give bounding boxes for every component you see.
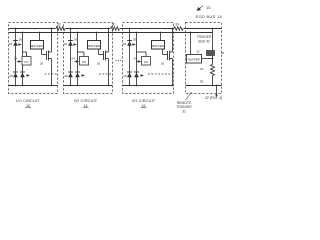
svg-text:18: 18 [64,42,68,46]
svg-text:18: 18 [9,42,13,46]
svg-text:20: 20 [133,38,137,42]
svg-text:16: 16 [142,104,146,108]
svg-text:I/O: I/O [82,60,87,64]
svg-text:28: 28 [9,74,13,78]
ground bus wire segment (box 2) [64,85,113,87]
svg-text:18: 18 [123,42,127,46]
svg-text:BUFFER: BUFFER [152,44,164,48]
I/O circuit block 3 dashed outline [123,23,174,94]
leader arrow 24 to pad (box 1) [14,57,22,63]
label I/O CIRCUIT 2 [74,98,98,108]
ground bus wire segment (remote trigger) [186,85,222,87]
wire: resistor to ground bus [212,76,214,86]
svg-text:26: 26 [97,62,101,66]
wire: second vertical (box 2) [77,33,79,86]
diode D3b (lower, rail to ground) [127,71,132,73]
label TRIGGER BUS 43 [197,35,212,44]
buffer U3 box [152,41,165,50]
svg-text:TRIGGER: TRIGGER [176,105,192,109]
label I/O CIRCUIT 1 [16,98,40,108]
buffer U1 box [31,41,44,50]
svg-text:BUFFER: BUFFER [188,58,200,62]
leader arrow lower (box 3) [141,74,145,77]
dashed boost line (box 3) [148,73,174,75]
I/O pad box (box 3) [142,57,151,66]
wire: pad rail vertical (box 3) [129,29,131,86]
svg-text:ESD BUS 14: ESD BUS 14 [196,14,222,19]
wire: clamp drain to ESD bus (box 3) [172,29,174,53]
leader arrow 24 to pad (box 2) [71,57,79,63]
svg-text:I/O CIRCUIT: I/O CIRCUIT [74,98,98,103]
svg-text:24: 24 [133,57,137,61]
dashed boost line (box 1) [45,73,58,75]
diode D1a (pad to ESD bus) [13,40,18,42]
resistor R3 (ESD bus, value 30) [174,22,184,31]
svg-text:TRIGGER: TRIGGER [197,35,212,39]
svg-text:20: 20 [19,38,23,42]
leader arrow 20 (box 1) [18,38,22,46]
label I/O CIRCUIT 3 [132,98,156,108]
svg-text:BUFFER: BUFFER [31,44,43,48]
wire: buffer output to clamp gate (box 1) [41,50,43,55]
clamp transistor Q3 [168,51,173,61]
remote trigger buffer box [187,55,202,64]
svg-text:20: 20 [74,38,78,42]
diode D2c (lower, pad to ground) [75,71,80,73]
leader arrow 24 to pad (box 3) [133,57,141,63]
wire: buffer output to clamp gate (box 3) [162,50,164,55]
wire: clamp drain to ESD bus (box 1) [51,29,53,53]
resistor R1 (ESD bus, value 30) [56,22,66,31]
wire: elbow into pad box (box 2) [78,51,85,53]
wire: ESD bus down to capacitor [212,29,214,51]
wire: pad rail vertical (box 1) [15,29,17,86]
label REMOTE TRIGGER 31 [176,92,192,114]
wire: second vertical (box 3) [136,33,138,86]
clamp transistor Q1 [47,51,52,61]
wire: buffer input from trigger bus (box 1) [39,33,41,41]
svg-text:16: 16 [84,104,88,108]
I/O circuit block 2 dashed outline [64,23,113,94]
svg-text:32: 32 [196,50,200,54]
I/O pad box (box 1) [22,57,31,66]
diode D2b (lower, rail to ground) [68,71,73,73]
wire: capacitor to node [212,56,214,65]
svg-text:BUFFER: BUFFER [88,44,100,48]
ground bus wire segment (box 3) [123,85,174,87]
svg-text:24: 24 [14,57,18,61]
figure reference arrow 10 [197,5,211,11]
wire: RC node horizontal [202,58,213,60]
dashed boost line (box 2) [99,73,113,75]
wire: clamp source to ground bus (box 2) [108,59,110,86]
diode D3c (lower, pad to ground) [134,71,139,73]
resistor R4 (vertical) [211,65,215,76]
capacitor C1 (dark box) [207,51,215,56]
svg-text:34: 34 [200,67,204,71]
svg-text:26: 26 [161,62,165,66]
resistor R2 (ESD bus, value 30) [110,22,120,31]
wire: second vertical (box 1) [22,33,24,86]
svg-text:22 (FIG. 4): 22 (FIG. 4) [205,96,222,100]
svg-text:I/O: I/O [24,60,29,64]
svg-text:BUS 40: BUS 40 [199,40,210,44]
svg-text:16: 16 [26,104,30,108]
ellipsis (repeated cells) [115,60,121,61]
diode D2a (pad to ESD bus) [68,40,73,42]
wire: clamp drain to ESD bus (box 2) [108,29,110,53]
leader arrow 20 (box 3) [132,38,136,46]
trigger bus wire (second horizontal) [9,32,213,34]
ESD bus wire (top horizontal) [9,28,222,30]
svg-text:10: 10 [206,5,211,10]
buffer U2 box [88,41,101,50]
svg-text:24: 24 [71,57,75,61]
svg-text:28: 28 [123,74,127,78]
wire: clamp source to ground bus (box 3) [172,59,174,86]
wire: pad rail vertical (box 2) [70,29,72,86]
wire: buffer input from trigger bus (box 3) [160,33,162,41]
svg-text:31: 31 [182,110,186,114]
wire: output to FIG.4 with arrow [215,85,218,98]
leader arrow 20 (box 2) [73,38,77,46]
wire: buffer input from trigger bus (box 2) [96,33,98,41]
remote trigger block dashed outline [186,23,222,94]
diode D3a (pad to ESD bus) [127,40,132,42]
svg-text:30: 30 [175,22,179,26]
svg-text:I/O CIRCUIT: I/O CIRCUIT [132,98,156,103]
leader arrow lower (box 2) [82,74,86,77]
clamp transistor Q2 [104,51,109,61]
leader arrow lower (box 1) [27,74,31,77]
svg-text:28: 28 [64,74,68,78]
svg-text:26: 26 [40,62,44,66]
wire: clamp source to ground bus (box 1) [51,59,53,86]
ground bus wire segment (box 1) [9,85,58,87]
wire: buffer output to clamp gate (box 2) [98,50,100,55]
diode D1b (lower, rail to ground) [13,71,18,73]
wire: elbow into pad box (box 3) [137,51,147,53]
wire: elbow into pad box (box 1) [23,51,27,53]
I/O circuit block 1 dashed outline [9,23,58,94]
diode D1c (lower, pad to ground) [20,71,25,73]
svg-text:36: 36 [221,51,225,55]
I/O pad box (box 2) [80,57,89,66]
svg-text:38: 38 [200,80,204,84]
svg-text:I/O: I/O [144,60,149,64]
svg-text:I/O CIRCUIT: I/O CIRCUIT [16,98,40,103]
wire: trigger bus to remote buffer [190,33,192,55]
